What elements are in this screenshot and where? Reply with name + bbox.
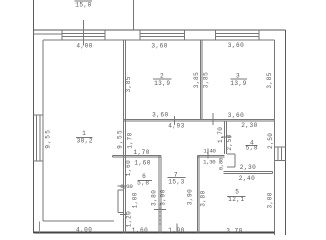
svg-text:9,55: 9,55 [116,129,123,149]
wall rooms6/7 divider [159,155,161,232]
svg-text:3,60: 3,60 [152,112,168,119]
svg-text:5,8: 5,8 [246,145,258,152]
tick dim 1,40 [207,148,209,158]
svg-text:7: 7 [174,171,178,178]
wire garage right wall [133,0,135,30]
svg-text:38,2: 38,2 [77,138,93,145]
window W2 top [140,30,185,40]
wire right inner wall [274,40,276,235]
svg-text:13,9: 13,9 [154,80,170,87]
label line room7 [168,177,186,179]
wall room4 bottom [224,172,273,174]
window W4 left wall [34,115,44,161]
wire bottom outer wall [34,231,275,233]
label line room6 [138,179,152,181]
door jamb room4 [227,154,235,167]
svg-text:1,60: 1,60 [132,227,148,234]
svg-text:3,60: 3,60 [228,42,244,49]
svg-text:2,50: 2,50 [267,133,274,149]
wire top outer wall [34,29,286,31]
tick dim 1,20 [120,213,127,215]
window W5 right wall [275,147,286,161]
wall y156 right segment [198,155,225,157]
tick dim 4,93 [173,116,175,125]
svg-text:1,70: 1,70 [127,132,134,148]
svg-text:1,30: 1,30 [203,159,216,166]
tick dim 3,60/2,30 [212,113,214,125]
svg-text:3,00: 3,00 [267,192,274,208]
svg-text:1: 1 [82,130,86,137]
svg-text:5: 5 [235,188,239,195]
wire left inner wall [42,40,44,221]
tick dim 3,80/3,90 left pair [154,209,166,211]
wall rooms1/2 divider [124,40,126,232]
label line room5 [227,195,245,197]
wire right outer wall [285,30,287,235]
wall rooms2/3 divider [200,40,202,120]
svg-text:2: 2 [160,73,164,80]
svg-text:0,30: 0,30 [120,183,133,190]
svg-text:3: 3 [236,72,240,79]
svg-text:4,00: 4,00 [76,226,92,233]
svg-text:12,1: 12,1 [228,196,244,203]
label line room3 [230,78,247,80]
svg-text:1,60: 1,60 [125,160,132,176]
svg-text:3,90: 3,90 [187,189,194,205]
svg-text:4,93: 4,93 [168,123,184,130]
svg-text:3,85: 3,85 [193,72,200,88]
tick dim 1,90 bottom [176,224,178,233]
window W3 top [215,30,259,40]
svg-text:1,60: 1,60 [134,160,150,167]
svg-text:15,3: 15,3 [168,178,184,185]
svg-text:2,50: 2,50 [226,134,233,150]
svg-text:5,8: 5,8 [137,180,149,187]
tick dim 4,00 top [82,20,84,46]
tick dim 2,50/1,70 [222,136,232,138]
svg-text:2,30: 2,30 [241,122,257,129]
svg-text:1,90: 1,90 [168,227,184,234]
svg-text:3,60: 3,60 [151,43,167,50]
svg-text:4,00: 4,00 [76,43,92,50]
tick dim 0,30 [118,185,128,187]
svg-text:1,70: 1,70 [133,149,149,156]
svg-text:3,60: 3,60 [228,112,244,119]
svg-text:2,30: 2,30 [240,164,256,171]
wall middle horizontal [124,120,275,122]
svg-text:1,00: 1,00 [132,192,139,208]
svg-text:13,9: 13,9 [230,80,246,87]
label line room1 [76,136,93,138]
wire room1 bottom inner wall [43,220,114,222]
svg-text:3,85: 3,85 [125,76,132,92]
niche room6 left wall [118,190,124,213]
wall rooms5/7 divider [198,155,200,232]
svg-text:3,85: 3,85 [266,72,273,88]
label line room4 [246,145,258,147]
svg-text:1,20: 1,20 [126,211,133,227]
window W1 top [62,30,105,40]
wall room4 left [225,121,227,154]
label line room2 [153,78,172,80]
svg-text:2,40: 2,40 [239,175,255,182]
wire top wall extra line [34,33,63,35]
label line garage [75,0,93,2]
svg-text:3,80: 3,80 [200,190,207,206]
svg-text:3,85: 3,85 [202,72,209,88]
svg-text:0,80: 0,80 [218,157,225,170]
svg-text:1,70: 1,70 [217,127,224,143]
wire bottom-left faint stud [39,222,41,233]
svg-text:9,55: 9,55 [44,129,51,149]
svg-text:3,90: 3,90 [159,189,166,205]
wall y156 left segment [112,155,161,157]
svg-text:1,40: 1,40 [203,148,216,155]
svg-text:3,70: 3,70 [226,227,242,234]
wire left outer wall [33,0,35,233]
wire top inner wall [43,39,274,41]
svg-text:15,0: 15,0 [75,1,91,8]
svg-text:3,80: 3,80 [151,190,158,206]
